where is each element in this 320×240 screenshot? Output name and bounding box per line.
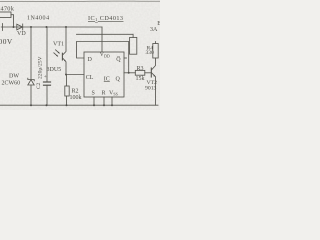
node CL junction [65,74,67,76]
capacitor C2 plates [44,81,51,83]
svg-text:VDD: VDD [100,52,110,59]
node junction top3 [46,26,48,28]
svg-text:9013: 9013 [145,86,157,92]
svg-text:Q: Q [116,76,121,82]
transistor VT2 base bar [150,68,152,77]
zener diode DW symbol [28,78,34,81]
svg-text:470k: 470k [1,5,15,12]
svg-text:Q̅: Q̅ [116,56,121,63]
svg-text:+: + [44,75,47,80]
node junction top2 [30,26,32,28]
wire coil feed [77,33,134,35]
svg-text:R3: R3 [137,66,144,72]
wire R pin [103,97,105,105]
wire S pin [93,97,95,105]
wire D feedback [77,42,129,73]
svg-text:330: 330 [146,50,155,56]
node junction top1 [13,26,15,28]
wire Q-bar stub [124,57,127,59]
svg-text:2CW60: 2CW60 [2,81,21,87]
svg-text:3DU5: 3DU5 [47,67,62,73]
relay coil K [130,37,137,54]
svg-text:C2: C2 [36,82,42,89]
svg-text:DW: DW [9,74,19,80]
IC U1 CD4013 box [84,52,124,97]
wire R3 to base [145,72,152,74]
svg-text:IC1 CD4013: IC1 CD4013 [88,15,123,22]
svg-text:R2: R2 [72,89,79,95]
svg-text:3A: 3A [150,27,158,33]
resistor R3 [135,70,145,75]
wire CL [66,74,84,76]
capacitor C2 wire upper [46,27,48,82]
svg-text:D: D [88,57,93,63]
capacitor C2 wire lower [46,85,48,105]
wire relay top stub [132,34,134,37]
wire resistor lead [11,15,14,27]
svg-text:S: S [92,91,95,97]
wire R2 top [66,75,68,87]
svg-text:15k: 15k [136,76,145,82]
diode VD [17,24,23,30]
resistor 470k [0,12,11,18]
svg-text:VD: VD [17,31,26,37]
phototransistor VT1 emitter [63,58,66,74]
wire Q output [124,72,135,74]
wire VDD pin [101,27,103,52]
capacitor C1 plate [2,24,4,31]
svg-text:B: B [157,21,160,27]
svg-text:R: R [102,91,106,97]
svg-text:1N4004: 1N4004 [27,16,50,22]
wire bottom rail [0,104,158,106]
svg-text:VSS: VSS [109,91,118,97]
wire Vss pin [111,97,113,105]
svg-text:CL: CL [86,75,94,81]
phototransistor VT1 collector [63,27,66,55]
resistor R4 [153,44,158,59]
wire R4 top stub [155,42,157,44]
node junction top4 [65,26,67,28]
resistor R2 [65,86,69,96]
page rule line top [0,0,160,3]
svg-text:100k: 100k [70,95,82,101]
node Q junction [128,72,130,74]
transistor VT2 emitter [152,73,156,105]
wire top rail [1,26,102,28]
zener DW lower wire [30,85,32,105]
wire R2 bottom [66,96,68,105]
light arrow 2 [54,53,58,56]
transistor VT2 collector [152,58,156,70]
light arrow 1 [56,50,60,53]
svg-text:IC: IC [104,76,110,82]
svg-text:00V: 00V [0,37,13,46]
node bottom junctions [30,104,32,106]
svg-text:220μ/25V: 220μ/25V [38,56,44,79]
phototransistor VT1 base bar [61,53,63,60]
svg-text:VT1: VT1 [53,41,64,47]
zener diode DW wire [30,27,32,80]
